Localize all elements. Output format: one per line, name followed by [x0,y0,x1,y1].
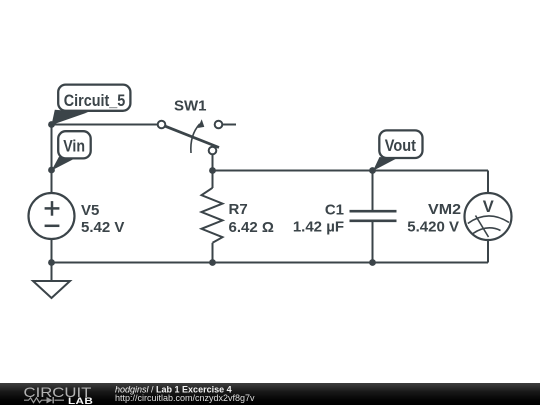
footer bar [0,383,540,405]
svg-text:http://circuitlab.com/cnzydx2v: http://circuitlab.com/cnzydx2vf8g7v [115,393,255,403]
voltmeter scale arc lower [473,228,501,234]
logo diode [47,397,53,403]
svg-text:6.42 Ω: 6.42 Ω [229,219,274,236]
wire top-left horizontal [52,124,158,126]
wire top-right horizontal [213,170,489,172]
logo waveform [24,398,64,403]
svg-text:Vin: Vin [63,138,85,156]
switch blade [165,126,219,147]
svg-text:V5: V5 [81,202,99,219]
svg-text:LAB: LAB [68,397,93,405]
svg-text:Vout: Vout [385,137,417,155]
logo word CIRCUIT [24,385,92,400]
wire V5 bottom to ground node [51,239,53,263]
ground [33,263,70,299]
svg-text:1.42 µF: 1.42 µF [293,219,344,236]
voltmeter VM2 [465,193,512,240]
svg-text:V: V [483,198,494,216]
wire left vertical [51,125,53,194]
switch SW1 [158,119,236,154]
node Circuit_5 junction dot [48,121,55,128]
wire voltmeter bottom lead [487,241,489,263]
switch right terminal stub [223,124,237,126]
wire switch common down [212,155,214,171]
label Circuit_5 [52,85,131,125]
node Vin junction dot [48,167,55,174]
svg-text:Circuit_5: Circuit_5 [64,92,126,110]
node Vout junction dot [369,167,376,174]
logo word LAB [68,397,93,405]
svg-text:C1: C1 [325,201,344,218]
node C1 bottom junction dot [369,259,376,266]
capacitor C1 [350,171,397,263]
resistor R7 [202,171,223,263]
node R7 top junction dot [209,167,216,174]
svg-text:R7: R7 [229,201,248,218]
switch actuation arrow [191,124,200,153]
switch left terminal [158,121,166,129]
svg-text:SW1: SW1 [174,98,207,115]
svg-text:5.420 V: 5.420 V [407,218,459,235]
node bottom-left junction dot [48,259,55,266]
svg-text:5.42 V: 5.42 V [81,219,124,236]
label Vin [52,131,91,170]
switch common terminal [209,147,217,155]
switch right terminal [215,121,223,129]
svg-text:VM2: VM2 [428,201,461,218]
wire voltmeter top lead [487,171,489,193]
label Vout [373,130,423,170]
voltmeter needle [476,216,489,238]
voltage source V5 [29,193,75,239]
bottom wire [52,262,489,264]
node R7 bottom junction dot [209,259,216,266]
voltmeter scale arc upper [468,216,509,224]
